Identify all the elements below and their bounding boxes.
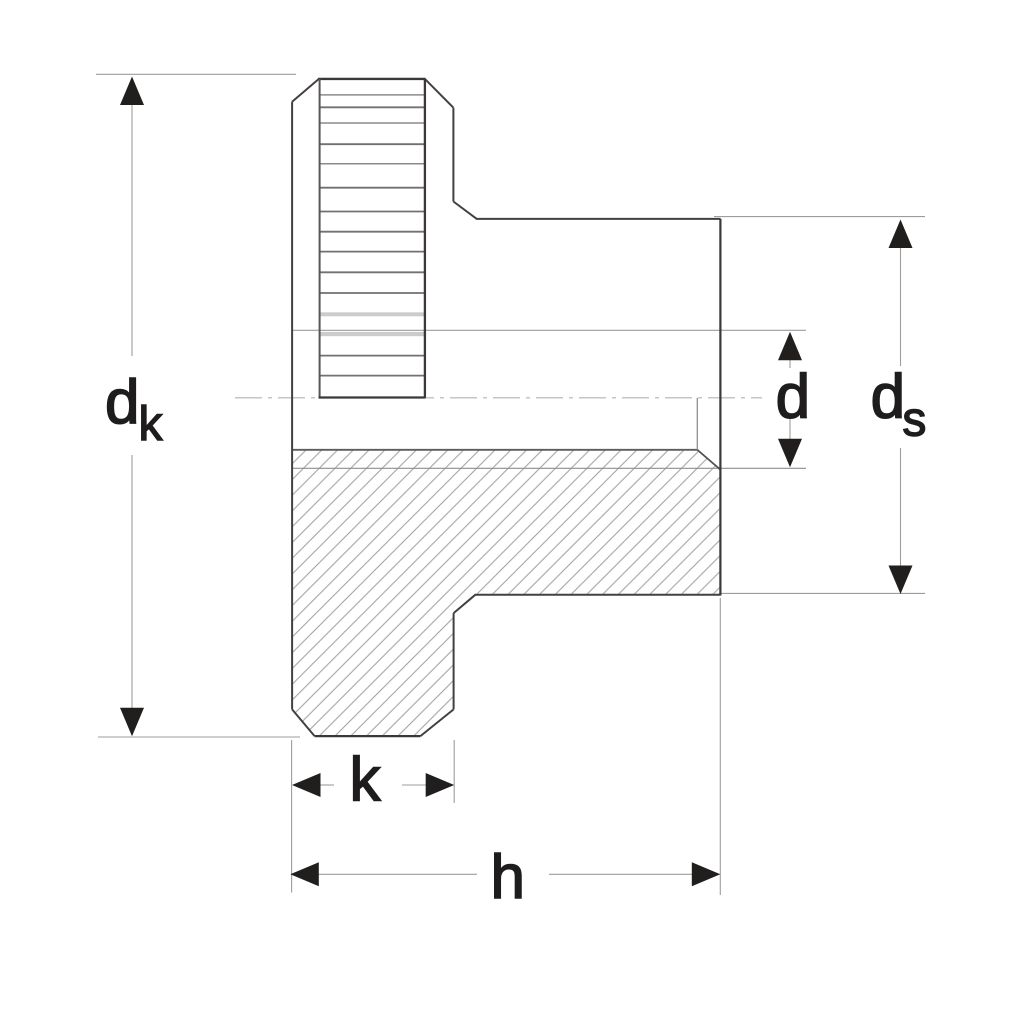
- extension line top-left (d_k upper): [96, 73, 296, 75]
- thread major line / d lower extension line: [292, 467, 806, 469]
- arrow d_k down: [120, 708, 144, 737]
- arrow h left: [290, 862, 319, 886]
- neck transition chamfer lower: [454, 595, 476, 613]
- bore countersink chamfer: [697, 450, 720, 470]
- knurl light band 1: [321, 312, 425, 316]
- arrow k right: [426, 773, 455, 797]
- svg-text:d: d: [776, 362, 810, 431]
- knurl light band 2: [321, 332, 425, 336]
- dimension line k (horizontal, y=785): [318, 784, 334, 786]
- svg-text:s: s: [902, 394, 926, 447]
- arrow d_s up: [889, 220, 913, 249]
- section hatch (cut material of nut, lower half): [293, 450, 720, 736]
- arrow d up: [778, 332, 802, 361]
- arrow k left: [292, 773, 321, 797]
- shank bottom edge: [475, 594, 721, 596]
- knurl ridge lines: [321, 95, 425, 164]
- knurl band left edge: [319, 79, 321, 398]
- head top-left chamfer: [292, 79, 319, 102]
- head top-right chamfer: [425, 79, 454, 108]
- extension line k+h left: [291, 740, 293, 893]
- head left face outline: [291, 102, 293, 710]
- head bottom-right chamfer: [420, 709, 453, 736]
- knurl band right edge: [424, 79, 426, 398]
- dimension line d_k (vertical, x=132): [131, 103, 133, 356]
- arrow d down: [778, 439, 802, 468]
- extension line d_s lower: [719, 592, 925, 594]
- extension line k right: [453, 740, 455, 803]
- svg-text:d: d: [105, 368, 139, 437]
- head right face lower: [453, 613, 455, 709]
- shank end face: [719, 219, 721, 596]
- dimension line d (vertical, x=790): [789, 357, 791, 368]
- centerline (axis, dash-dot): [235, 397, 762, 399]
- head bottom-left chamfer: [292, 709, 315, 736]
- arrow d_s down: [889, 566, 913, 595]
- arrow h right: [692, 862, 721, 886]
- thread bore top line / d upper extension line: [292, 329, 806, 331]
- head right face upper: [452, 108, 454, 202]
- head bottom edge: [315, 735, 421, 737]
- dimension line d_s (vertical, x=900.5): [900, 246, 902, 366]
- svg-text:d: d: [871, 362, 905, 431]
- svg-text:k: k: [139, 398, 164, 451]
- knurl band top edge: [318, 78, 426, 80]
- arrow d_k up: [120, 77, 144, 106]
- extension line d_s upper: [714, 216, 925, 218]
- extension line bottom-left (d_k lower): [98, 736, 300, 738]
- shank top edge: [477, 218, 721, 220]
- neck transition chamfer upper: [453, 202, 477, 220]
- knurl band bottom edge: [319, 396, 426, 398]
- extension line h right: [719, 598, 721, 895]
- svg-text:h: h: [491, 843, 525, 912]
- bore chamfer edge vertical: [696, 398, 698, 450]
- dimension line h (horizontal, y=874.3): [316, 873, 477, 875]
- tapped bore bottom line (section): [292, 449, 697, 451]
- svg-text:k: k: [350, 745, 382, 814]
